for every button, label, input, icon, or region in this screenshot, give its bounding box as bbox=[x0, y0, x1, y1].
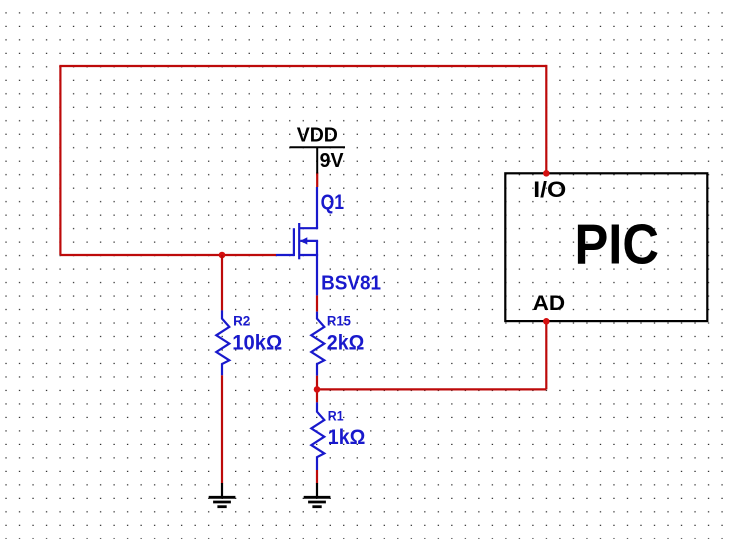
svg-text:9V: 9V bbox=[320, 149, 344, 172]
wire: VDD to Q1 drain bbox=[316, 173, 318, 188]
PIC subcircuit box bbox=[505, 173, 707, 321]
source vertical lead down bbox=[316, 241, 318, 296]
pin label I/O bbox=[533, 177, 566, 202]
svg-text:2kΩ: 2kΩ bbox=[327, 332, 365, 355]
wire: R1 bottom to ground bbox=[316, 470, 318, 484]
label BSV81 bbox=[321, 271, 381, 294]
junction dot at PIC AD pin bbox=[543, 318, 550, 325]
wire: AD horizontal to node bbox=[317, 388, 546, 390]
wire: R2 top (junction to resistor) bbox=[221, 255, 223, 310]
svg-text:BSV81: BSV81 bbox=[321, 271, 381, 294]
svg-text:R15: R15 bbox=[327, 313, 351, 328]
label PIC bbox=[575, 212, 660, 276]
resistor R1 bbox=[311, 402, 324, 470]
svg-text:1kΩ: 1kΩ bbox=[328, 426, 366, 449]
wire: gate horizontal bbox=[60, 254, 276, 256]
source stub bbox=[299, 254, 318, 256]
junction dot at gate/R2 branch bbox=[219, 252, 226, 259]
svg-text:PIC: PIC bbox=[575, 212, 660, 276]
drain stub bbox=[299, 227, 318, 229]
pin label AD bbox=[533, 292, 566, 315]
gate bar bbox=[293, 228, 295, 256]
label Q1 bbox=[321, 191, 345, 214]
wire: node to R1 bbox=[316, 389, 318, 402]
wire: top horizontal from loop to PIC I/O bbox=[59, 65, 546, 67]
ground under R2 bbox=[209, 483, 236, 507]
wire: R15 bottom to node bbox=[316, 376, 318, 390]
wire: AD pin vertical bbox=[545, 321, 547, 389]
label 9V bbox=[320, 149, 344, 172]
svg-text:10kΩ: 10kΩ bbox=[232, 332, 282, 355]
node dot R15/R1/AD bbox=[314, 386, 321, 393]
ground under R1 bbox=[304, 483, 331, 507]
resistor R2 bbox=[216, 310, 229, 375]
label 10k&#937; bbox=[232, 332, 282, 355]
svg-text:Q1: Q1 bbox=[321, 191, 345, 214]
wire: left vertical of gate feedback loop bbox=[59, 66, 61, 255]
svg-text:AD: AD bbox=[533, 292, 566, 315]
drain lead up bbox=[316, 187, 318, 228]
svg-text:R2: R2 bbox=[233, 313, 250, 328]
label VDD bbox=[297, 123, 338, 146]
label R2 bbox=[233, 313, 250, 328]
label R1 bbox=[328, 408, 344, 423]
label 2k&#937; bbox=[327, 332, 365, 355]
channel bar bbox=[298, 223, 300, 259]
label 1k&#937; bbox=[328, 426, 366, 449]
svg-text:I/O: I/O bbox=[533, 177, 566, 202]
svg-text:VDD: VDD bbox=[297, 123, 338, 146]
junction dot at PIC I/O pin bbox=[543, 170, 550, 177]
body line with arrow bbox=[300, 240, 318, 242]
power symbol VDD 9V bbox=[290, 147, 345, 173]
label R15 bbox=[327, 313, 351, 328]
gate lead bbox=[276, 254, 294, 256]
wire: right vertical down to PIC I/O pin bbox=[545, 65, 547, 173]
resistor R15 bbox=[311, 312, 324, 376]
transistor Q1 (BSV81 N-channel MOSFET) bbox=[276, 187, 318, 295]
svg-text:R1: R1 bbox=[328, 408, 344, 423]
wire: Q1 source to R15 bbox=[316, 295, 318, 311]
wire: R2 bottom to ground bbox=[221, 375, 223, 483]
